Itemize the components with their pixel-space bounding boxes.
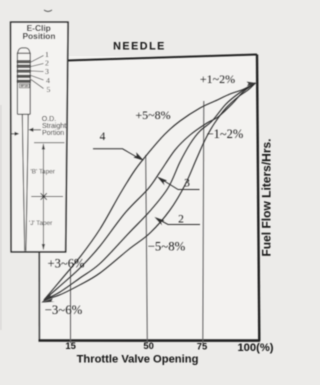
stray scan mark [44, 10, 52, 12]
fan arrowheads at bottom-left convergence [41, 293, 54, 303]
needle shoulder [17, 113, 30, 115]
svg-text:Fuel Flow Liters/Hrs.: Fuel Flow Liters/Hrs. [260, 138, 274, 256]
svg-text:NEEDLE: NEEDLE [113, 41, 166, 53]
gridline 75 [203, 101, 204, 343]
dimension arrow down [42, 244, 45, 250]
svg-text:'B' Taper: 'B' Taper [31, 169, 56, 176]
svg-text:Portion: Portion [42, 130, 64, 137]
needle id stamp [19, 84, 29, 88]
curve clip pos 4 [44, 83, 256, 300]
svg-text:Throttle Valve Opening: Throttle Valve Opening [77, 354, 199, 366]
svg-text:15: 15 [65, 340, 75, 351]
needle cylinder [17, 53, 30, 114]
gridline 50 [146, 155, 148, 343]
gridline 15 [70, 269, 72, 343]
OD arrow left-pointing [30, 128, 42, 131]
svg-text:2: 2 [178, 214, 184, 226]
svg-text:+5~8%: +5~8% [135, 108, 170, 122]
chart interior paper [40, 56, 258, 340]
curve clip pos 1 [44, 83, 256, 300]
svg-text:+3~6%: +3~6% [47, 257, 85, 271]
svg-text:6F16: 6F16 [21, 84, 28, 88]
svg-text:−3~6%: −3~6% [45, 303, 83, 317]
dimension vertical line [42, 144, 44, 250]
chart right axis [257, 55, 259, 342]
svg-text:75: 75 [197, 341, 207, 352]
X mark [41, 193, 47, 200]
chart left axis [38, 56, 40, 341]
svg-text:−5~8%: −5~8% [148, 240, 186, 254]
svg-text:3: 3 [45, 67, 49, 76]
dimension top tick [34, 142, 65, 144]
dimension mid tick [31, 196, 63, 198]
svg-text:100(%): 100(%) [237, 342, 273, 354]
outside arrow right-pointing [11, 132, 18, 135]
chart bottom axis [39, 339, 261, 342]
svg-text:Straight: Straight [42, 123, 66, 130]
dimension arrow up [42, 144, 45, 150]
svg-text:Position: Position [22, 31, 55, 41]
clip grooves [17, 60, 31, 83]
svg-text:'J' Taper: 'J' Taper [29, 220, 53, 227]
left edge scan streak [0, 105, 2, 330]
arrowhead at top-right convergence [247, 82, 257, 87]
svg-text:4: 4 [100, 131, 106, 143]
svg-text:3: 3 [184, 178, 190, 190]
chart top line [67, 55, 258, 61]
svg-text:−1~2%: −1~2% [207, 127, 244, 141]
needle body [17, 48, 30, 251]
svg-text:+1~2%: +1~2% [200, 72, 235, 86]
svg-text:5: 5 [47, 85, 51, 94]
svg-text:50: 50 [143, 340, 153, 351]
inset box [11, 22, 68, 252]
svg-text:4: 4 [46, 76, 50, 85]
needle dome [17, 48, 30, 53]
needle shank taper [22, 114, 24, 251]
curve clip pos 2 [44, 83, 256, 300]
curve clip pos 3 [44, 83, 256, 300]
clip leader lines [31, 56, 44, 89]
